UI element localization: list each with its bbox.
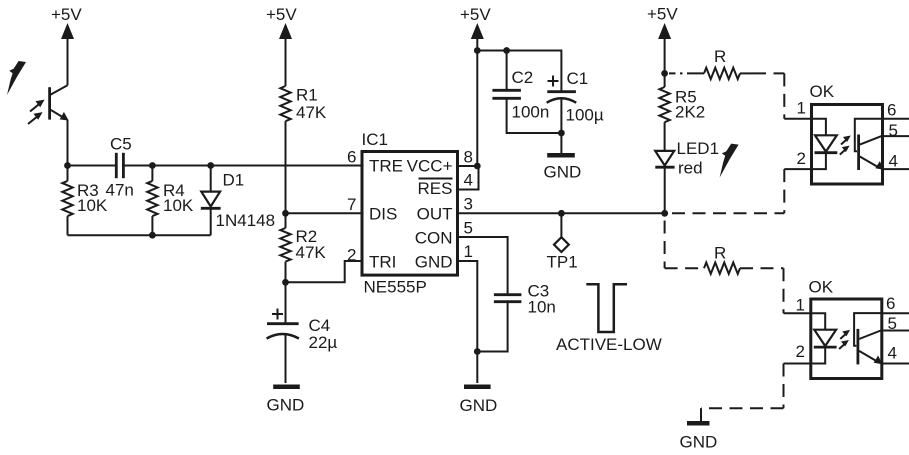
wire dashed down to pin 1 (783, 73, 785, 118)
svg-text:4: 4 (888, 344, 897, 363)
svg-text:1: 1 (796, 296, 805, 315)
wire pin 6 stub upper (883, 118, 909, 120)
opto lower internal LED (811, 313, 837, 363)
wire dashed to R lower (665, 267, 704, 269)
capacitor C4 (267, 282, 299, 383)
wire dashed R to lower opto pin 1 (740, 267, 784, 269)
wire emitter down to node (67, 120, 69, 166)
svg-text:OK: OK (810, 82, 835, 101)
wire dashed OUT to right (672, 212, 784, 214)
wire rail C5 to TRE (123, 165, 362, 167)
svg-text:DIS: DIS (369, 205, 397, 224)
ground C4 (267, 387, 305, 415)
power +5V net 4 arrow (658, 23, 671, 39)
svg-text:+5V: +5V (460, 5, 491, 24)
node dot emitter/rail (64, 162, 71, 169)
svg-text:47K: 47K (296, 103, 327, 122)
resistor R3 (62, 166, 72, 236)
svg-text:R1: R1 (296, 86, 318, 105)
wire pin 4 stub lower (882, 363, 909, 365)
test point TP1 (554, 213, 569, 252)
phototransistor Q1 (50, 85, 69, 120)
wire bottom rail (68, 234, 211, 236)
node dot pin1/C3 (474, 348, 481, 355)
svg-text:OUT: OUT (417, 205, 453, 224)
svg-text:8: 8 (464, 148, 473, 167)
light flash bolt at LED1 (720, 144, 739, 178)
node dot R4 bottom (149, 232, 156, 239)
svg-text:LED1: LED1 (677, 139, 720, 158)
node dot D1 top (207, 162, 214, 169)
svg-text:4: 4 (889, 152, 898, 171)
svg-text:2K2: 2K2 (675, 103, 705, 122)
svg-text:D1: D1 (223, 171, 245, 190)
wire OUT pin 3 (458, 212, 665, 214)
wire pin 4 stub upper (883, 168, 909, 170)
wire dashed pin 2 down to OUT (783, 169, 785, 213)
power +5V net 2 arrow (279, 23, 292, 39)
power +5V net 1 arrow (61, 23, 74, 39)
pin name RES with overline (418, 179, 453, 199)
svg-text:6: 6 (887, 101, 896, 120)
svg-text:22µ: 22µ (309, 333, 338, 352)
ground C1 C2 (544, 133, 582, 182)
svg-text:GND: GND (415, 253, 453, 272)
svg-text:7: 7 (347, 195, 356, 214)
svg-text:GND: GND (680, 433, 718, 452)
wire dashed R to opto pin1 (740, 72, 753, 74)
svg-text:R: R (714, 244, 726, 263)
opto lower light arrows (839, 330, 850, 349)
node dot OUT/LED1 (661, 210, 668, 217)
svg-text:2: 2 (797, 149, 806, 168)
svg-text:C2: C2 (512, 68, 534, 87)
optocoupler OK lower box (811, 299, 882, 379)
svg-text:5: 5 (464, 219, 473, 238)
wire dashed down to lower pin 1 (783, 268, 785, 313)
resistor R upper (704, 68, 740, 79)
svg-text:4: 4 (464, 171, 473, 190)
opto upper phototransistor (855, 119, 884, 170)
svg-text:GND: GND (460, 396, 498, 415)
wire top rail to C1 (477, 51, 561, 92)
wire pin 1 stub upper opto (784, 118, 811, 120)
resistor R1 (280, 86, 290, 213)
svg-text:6: 6 (886, 294, 895, 313)
svg-text:2: 2 (347, 246, 356, 265)
light arrows into phototransistor (28, 100, 45, 124)
power +5V net 3 arrow (471, 23, 484, 39)
wire pin 5 stub upper (883, 135, 909, 137)
resistor R5 (659, 73, 669, 150)
svg-text:2: 2 (796, 342, 805, 361)
svg-text:1: 1 (464, 242, 473, 261)
wire dashed to GND (701, 407, 784, 409)
node dot TRI junction (282, 279, 289, 286)
wire pin 2 stub lower (784, 363, 811, 365)
svg-text:1N4148: 1N4148 (216, 211, 276, 230)
svg-text:VCC+: VCC+ (407, 157, 453, 176)
svg-text:TRI: TRI (369, 253, 396, 272)
svg-text:R: R (714, 47, 726, 66)
svg-text:47n: 47n (106, 181, 134, 200)
node dot C2 top (503, 47, 510, 54)
capacitor C2 (492, 51, 561, 134)
svg-text:+5V: +5V (51, 5, 82, 24)
wire pin 6 stub lower (882, 312, 909, 314)
svg-text:IC1: IC1 (362, 130, 388, 149)
capacitor C1 plus sign (548, 76, 559, 87)
light flash bolt at phototransistor (7, 61, 26, 95)
wire pin 4 to vcc (458, 166, 479, 190)
svg-text:100n: 100n (512, 103, 550, 122)
wire pin 5 stub lower (882, 330, 909, 332)
svg-text:10K: 10K (77, 196, 108, 215)
node dot C1 bottom (558, 130, 565, 137)
wire to R1 (285, 32, 287, 86)
capacitor C4 plus sign (272, 309, 283, 320)
wire TRI jog (286, 261, 363, 282)
op-amp: IC1 555 timer box (362, 152, 458, 276)
svg-text:1: 1 (797, 99, 806, 118)
svg-text:red: red (678, 159, 703, 178)
wire GND pin 1 down (458, 261, 477, 352)
opto upper light arrows (840, 136, 851, 155)
svg-text:TP1: TP1 (547, 253, 578, 272)
diode D1 (201, 166, 221, 236)
ground C3 (460, 352, 498, 416)
svg-text:+5V: +5V (266, 5, 297, 24)
svg-text:GND: GND (544, 163, 582, 182)
wire pin 1 stub lower opto (784, 312, 811, 314)
svg-text:TRE: TRE (369, 157, 403, 176)
svg-text:C1: C1 (567, 69, 589, 88)
svg-text:10n: 10n (528, 298, 556, 317)
svg-text:ACTIVE-LOW: ACTIVE-LOW (556, 335, 662, 354)
svg-text:100µ: 100µ (566, 106, 604, 125)
wire to R5 node (664, 32, 666, 73)
wire dashed lower pin 2 down (783, 364, 785, 409)
wire dashed down from OUT node (664, 221, 666, 269)
wire DIS (286, 212, 363, 214)
capacitor C1 (547, 92, 577, 133)
svg-text:+5V: +5V (647, 5, 678, 24)
resistor R4 (147, 166, 157, 236)
ground lower right (680, 408, 718, 451)
resistor R lower (704, 263, 740, 274)
svg-text:6: 6 (347, 148, 356, 167)
opto lower phototransistor (854, 313, 882, 364)
capacitor C3 (477, 295, 521, 352)
svg-text:CON: CON (415, 229, 453, 248)
wire pin 8 (458, 165, 477, 167)
wire CON pin 5 to C3 (458, 237, 508, 294)
wire +5V down to pin 8 (476, 32, 478, 166)
svg-text:NE555P: NE555P (364, 278, 427, 297)
capacitor C5 (116, 153, 123, 178)
wire dash-dot R top left (669, 72, 704, 74)
LED1 diode (655, 151, 674, 213)
optocoupler OK upper box (812, 105, 883, 185)
svg-text:GND: GND (267, 396, 305, 415)
wire rail left of C5 (68, 165, 116, 167)
svg-text:RES: RES (418, 179, 453, 198)
waveform active-low pulse (586, 284, 627, 332)
svg-text:10K: 10K (163, 196, 194, 215)
svg-text:3: 3 (464, 195, 473, 214)
wire collector of phototransistor (67, 32, 69, 85)
opto upper internal LED (812, 119, 838, 169)
node dot R4 top (149, 162, 156, 169)
wire pin 2 stub upper (784, 168, 811, 170)
svg-text:C5: C5 (110, 135, 132, 154)
svg-text:5: 5 (889, 121, 898, 140)
node dot top rail (474, 47, 481, 54)
svg-text:OK: OK (809, 278, 834, 297)
node dot TP1 (558, 210, 565, 217)
node dot pin 8 (474, 163, 481, 170)
node dot R5 top (661, 70, 668, 77)
node dot DIS junction (282, 210, 289, 217)
svg-text:47K: 47K (296, 243, 327, 262)
resistor R2 (280, 213, 290, 282)
